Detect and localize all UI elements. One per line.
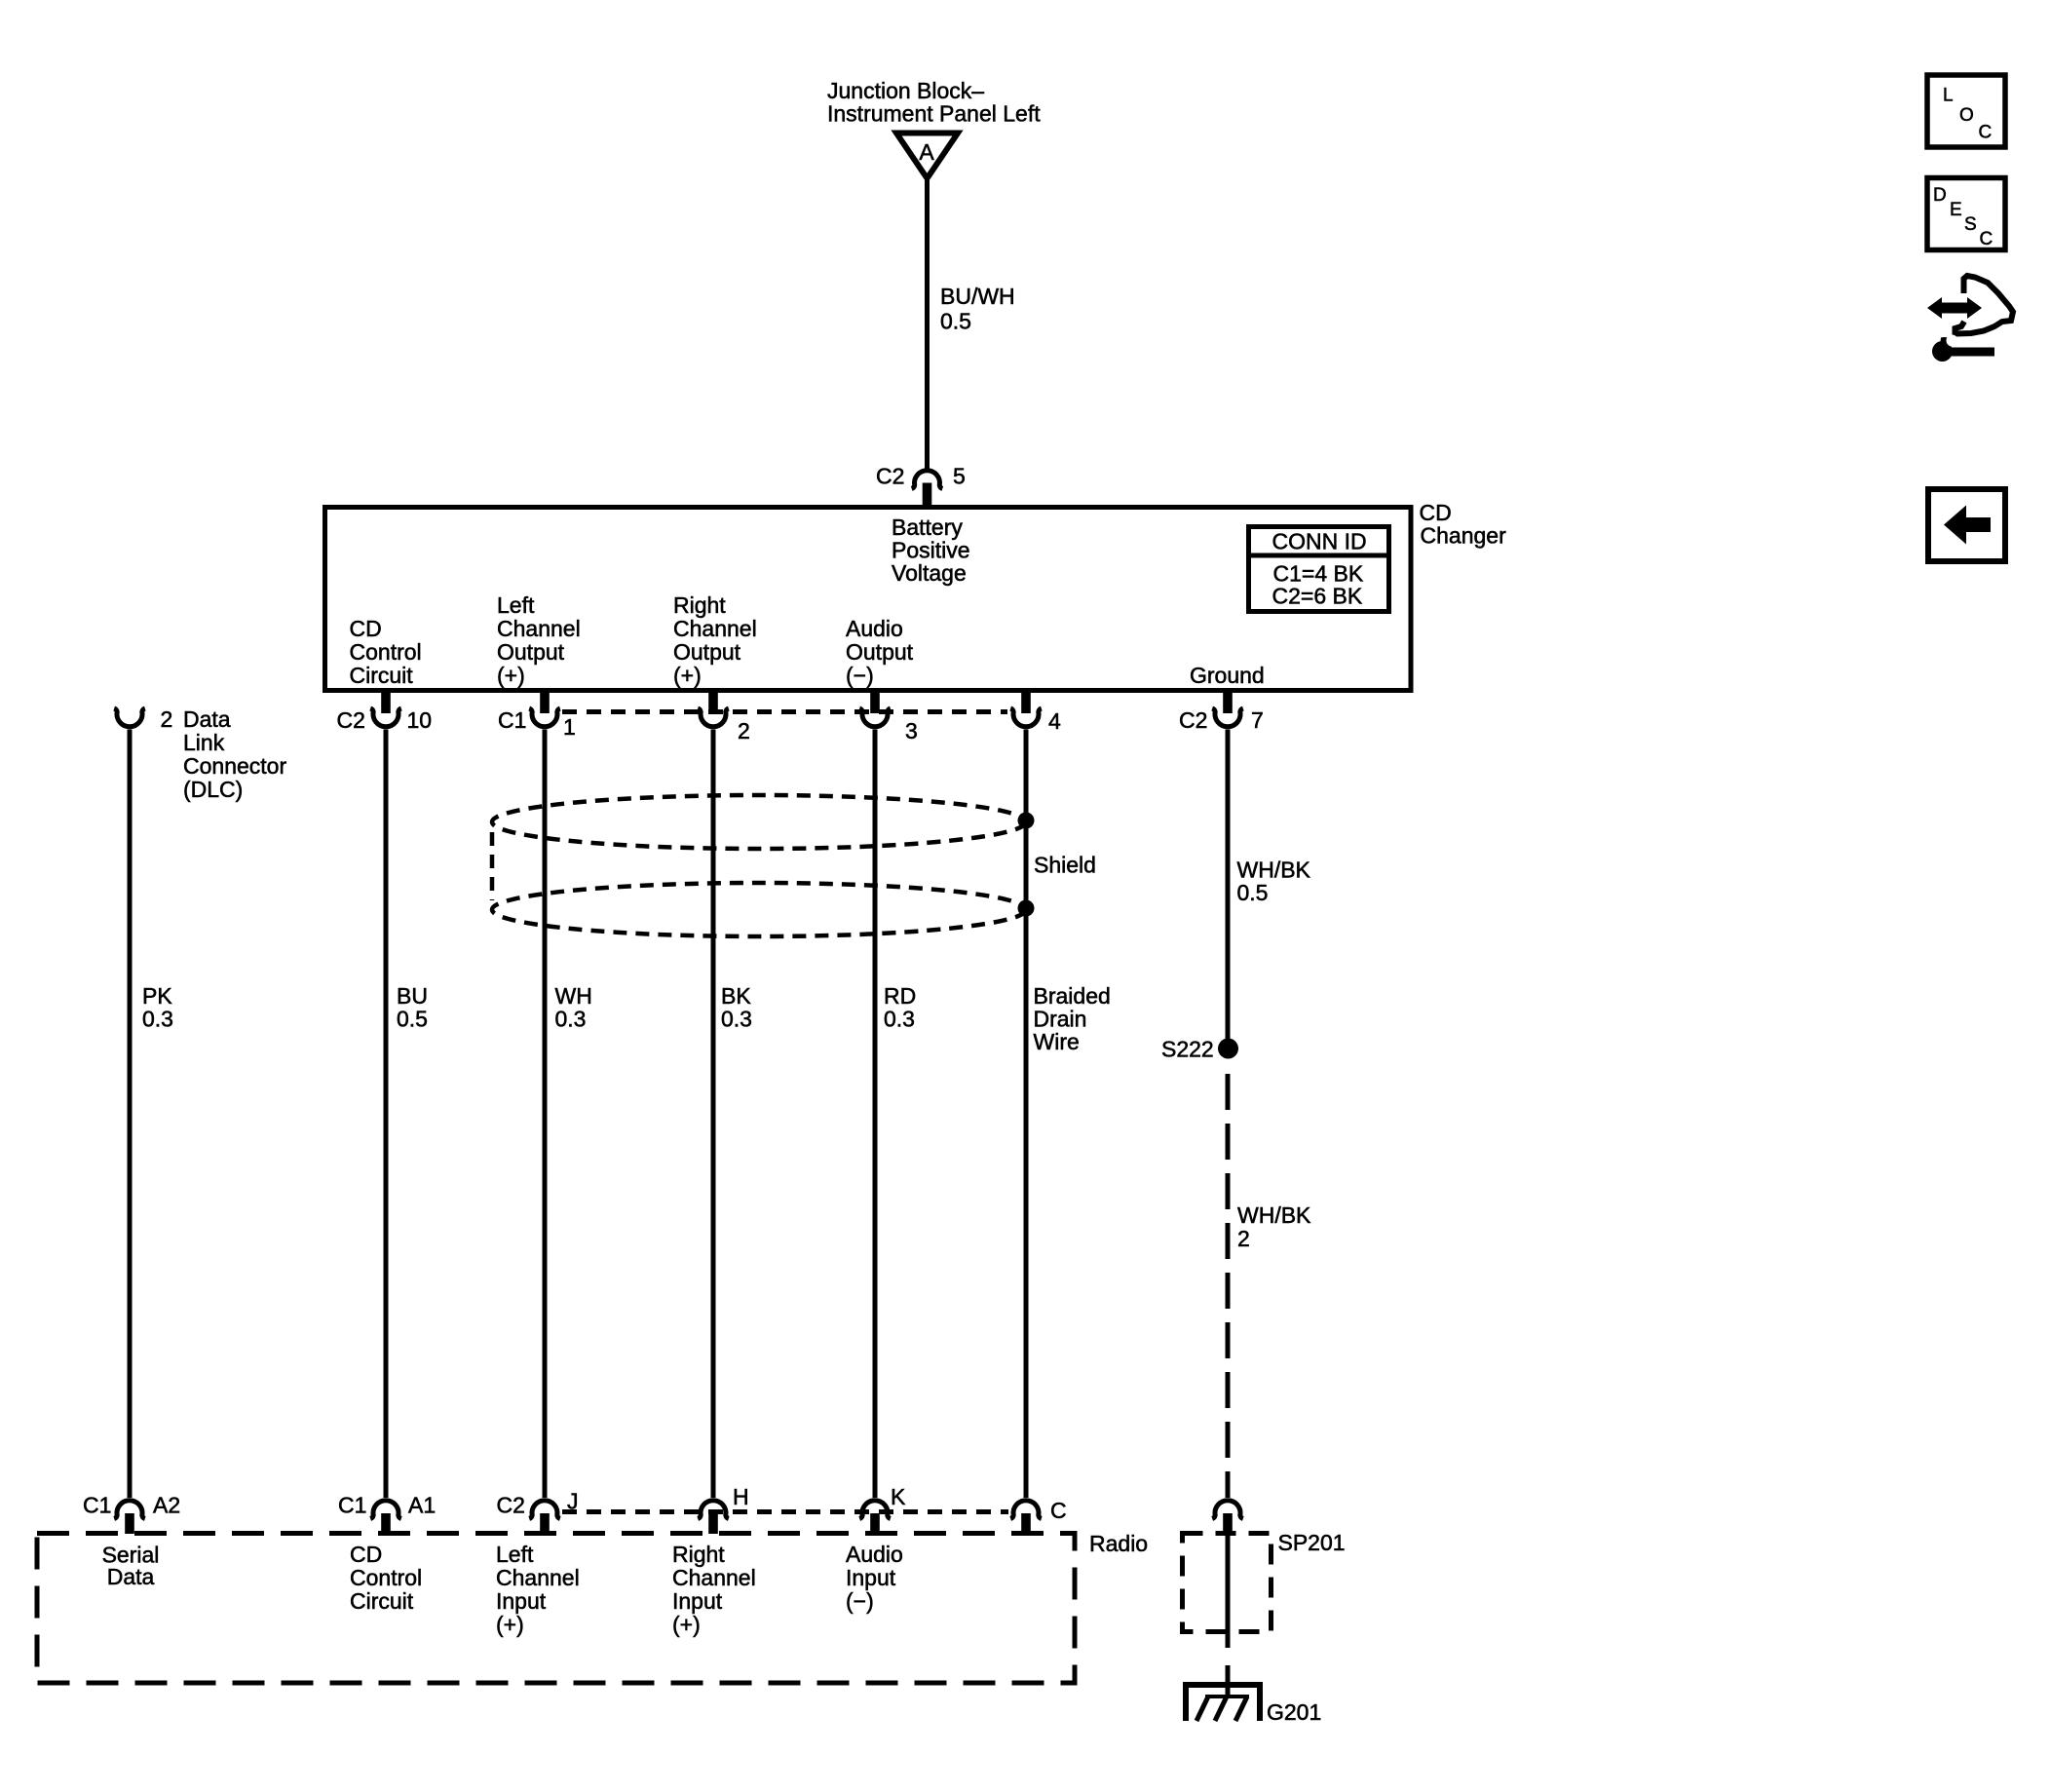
svg-text:Control: Control [350,639,422,665]
svg-text:C1: C1 [338,1493,366,1518]
connector pin 3 [859,690,918,743]
wire through SP201 [1226,1534,1231,1648]
DLC label [183,706,286,802]
radio pin label audio input (-) [846,1542,903,1614]
svg-text:0.5: 0.5 [940,309,971,334]
svg-text:WH/BK: WH/BK [1237,1202,1311,1228]
svg-text:Channel: Channel [673,616,757,641]
svg-text:WH/BK: WH/BK [1237,858,1311,883]
svg-text:Radio: Radio [1089,1531,1148,1556]
wire WH/BK ground [1226,730,1231,1044]
wire label WH 0.3 [555,983,592,1032]
svg-text:Junction Block–: Junction Block– [827,78,984,103]
svg-text:C1: C1 [498,707,526,733]
radio connector C2 pin J [497,1489,579,1535]
svg-text:WH: WH [555,983,592,1009]
svg-text:5: 5 [953,464,966,489]
svg-text:Changer: Changer [1421,523,1507,549]
svg-text:3: 3 [905,718,918,743]
wire label BU 0.5 [397,983,428,1032]
svg-text:E: E [1950,200,1962,220]
svg-text:2: 2 [738,718,750,743]
connector pin 4 [1010,690,1061,734]
svg-text:BU/WH: BU/WH [940,284,1015,309]
shield dashed loop upper [492,795,1026,849]
svg-text:0.3: 0.3 [884,1007,915,1032]
svg-text:C: C [1050,1498,1067,1523]
pin label CD control circuit [350,616,422,688]
svg-text:Right: Right [673,592,726,618]
svg-text:CD: CD [1420,500,1452,525]
svg-text:Drain: Drain [1034,1007,1087,1032]
svg-text:Ground: Ground [1190,663,1265,688]
svg-text:0.3: 0.3 [142,1007,173,1032]
shield junction dot lower [1018,900,1035,917]
svg-text:Channel: Channel [496,1565,580,1590]
dashed wire WH/BK 2 [1226,1074,1231,1498]
wire WH left channel [543,730,548,1499]
svg-text:(+): (+) [496,1612,524,1637]
svg-text:SP201: SP201 [1278,1530,1346,1555]
LOC icon box [1927,75,2005,147]
svg-text:S: S [1964,214,1977,235]
radio connector pin C [1010,1498,1066,1534]
wire label braided drain wire [1034,983,1111,1054]
svg-text:Output: Output [497,639,565,665]
pin label right channel output (+) [673,592,757,688]
radio connector pin H [698,1484,748,1534]
shield junction dot upper [1018,813,1035,829]
shield dashed loop lower [492,883,1026,936]
svg-text:Circuit: Circuit [350,663,414,688]
svg-text:RD: RD [884,983,916,1009]
svg-text:Circuit: Circuit [350,1588,414,1614]
svg-text:Data: Data [107,1564,155,1589]
wire label BK 0.3 [721,983,752,1032]
radio connector C1 pin A2 [83,1493,180,1535]
svg-text:G201: G201 [1267,1699,1321,1725]
wire PK serial data [128,730,133,1499]
svg-text:2: 2 [1237,1226,1250,1251]
wire to ground [1226,1665,1231,1698]
CD changer name label [1420,500,1507,549]
svg-text:(DLC): (DLC) [183,777,243,802]
svg-text:Right: Right [672,1542,725,1567]
svg-text:Connector: Connector [183,753,286,779]
splice pack connector [1212,1501,1243,1534]
svg-text:Control: Control [350,1565,422,1590]
wire BU/WH from junction block [925,180,930,470]
connector C2 pin 5 [876,464,966,510]
connector C2 pin 10 [337,690,433,733]
svg-text:Input: Input [846,1565,896,1590]
DESC icon box [1927,178,2005,250]
svg-text:Output: Output [846,639,914,665]
wire label PK 0.3 [142,983,173,1032]
radio box dashed [37,1534,1075,1684]
svg-text:PK: PK [142,983,172,1009]
svg-text:J: J [567,1489,579,1514]
svg-text:0.5: 0.5 [1237,880,1269,905]
svg-text:Left: Left [497,592,535,618]
wire label WH/BK 0.5 [1237,858,1311,906]
svg-text:C2: C2 [497,1493,525,1518]
svg-text:Input: Input [672,1588,723,1614]
svg-text:2: 2 [161,706,173,732]
svg-text:A1: A1 [408,1493,436,1518]
svg-text:1: 1 [563,714,576,740]
svg-text:Input: Input [496,1588,547,1614]
svg-text:A2: A2 [153,1493,180,1518]
back arrow icon box [1928,489,2005,561]
wire label RD 0.3 [884,983,916,1032]
CD changer box [325,508,1412,691]
svg-text:(+): (+) [497,663,525,688]
splice pack SP201 box dashed [1183,1534,1272,1632]
svg-text:10: 10 [407,707,433,733]
braided drain wire [1024,730,1029,1499]
svg-text:Left: Left [496,1542,534,1567]
radio connector pin K [859,1484,906,1534]
CONN ID table [1246,527,1391,612]
pin label left channel output (+) [497,592,581,688]
wire label BU/WH 0.5 [940,284,1015,334]
svg-text:CONN ID: CONN ID [1272,529,1367,554]
svg-text:C2=6 BK: C2=6 BK [1272,584,1363,609]
svg-text:CD: CD [350,1542,382,1567]
svg-text:C2: C2 [876,464,904,489]
svg-text:Positive: Positive [892,538,970,563]
splice S222 [1161,1037,1238,1062]
connector C2 pin 7 [1179,690,1264,733]
svg-text:Instrument Panel Left: Instrument Panel Left [827,101,1041,127]
svg-text:(+): (+) [672,1612,701,1637]
svg-text:(+): (+) [673,663,702,688]
svg-text:A: A [919,139,934,165]
twisted pair dashed line bottom [562,1509,1008,1514]
svg-text:Audio: Audio [846,616,903,641]
svg-text:C1: C1 [83,1493,111,1518]
svg-text:C: C [1980,229,1993,249]
svg-text:Channel: Channel [497,616,581,641]
svg-text:4: 4 [1048,708,1061,734]
svg-text:L: L [1943,86,1954,106]
svg-text:(−): (−) [846,663,874,688]
svg-text:Data: Data [183,706,231,732]
pin label audio output (-) [846,616,914,688]
svg-text:H: H [733,1484,749,1509]
junction block label [827,78,1041,127]
svg-text:Audio: Audio [846,1542,903,1567]
svg-text:K: K [891,1484,906,1509]
svg-text:C: C [1979,123,1993,143]
svg-text:Voltage: Voltage [892,560,967,586]
radio pin label right channel input (+) [672,1542,756,1637]
wrench swap icon [1927,276,2013,362]
svg-text:0.3: 0.3 [721,1007,752,1032]
radio pin label cd control circuit [350,1542,422,1614]
ground G201 symbol [1186,1685,1260,1721]
DLC connector pin 2 [114,706,172,732]
pin label battery positive voltage [892,515,970,586]
svg-text:D: D [1933,185,1947,206]
radio connector C1 pin A1 [338,1493,436,1535]
wire BU cd control [384,730,389,1499]
connector pin 2 [698,690,750,743]
svg-text:(−): (−) [846,1588,874,1614]
svg-text:Link: Link [183,730,225,755]
svg-text:0.5: 0.5 [397,1007,428,1032]
twisted pair dashed line top [562,709,1007,714]
svg-text:Shield: Shield [1034,853,1096,878]
radio pin label left channel input (+) [496,1542,580,1637]
svg-text:7: 7 [1251,707,1264,733]
svg-text:Wire: Wire [1034,1029,1080,1054]
svg-text:Channel: Channel [672,1565,756,1590]
svg-text:C2: C2 [337,707,365,733]
connector C1 pin 1 [498,690,576,740]
shield left bridge [490,832,495,900]
wire label WH/BK 2 [1237,1202,1311,1251]
svg-text:BU: BU [397,983,428,1009]
svg-text:C2: C2 [1179,707,1207,733]
svg-text:Battery: Battery [892,515,963,540]
junction block triangle A [896,133,958,179]
svg-text:S222: S222 [1161,1037,1214,1062]
svg-text:BK: BK [721,983,751,1009]
svg-text:O: O [1959,105,1974,126]
wire BK right channel [711,730,716,1499]
svg-text:Output: Output [673,639,741,665]
wire RD audio [873,730,878,1499]
svg-text:0.3: 0.3 [555,1007,587,1032]
radio pin label serial data [102,1543,160,1590]
svg-text:Braided: Braided [1034,983,1111,1009]
svg-text:CD: CD [350,616,382,641]
